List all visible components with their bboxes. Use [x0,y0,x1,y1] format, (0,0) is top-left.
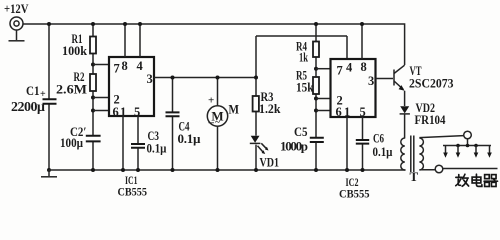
wire to IC1 pin 6 [93,110,110,112]
svg-text:1: 1 [344,105,350,119]
wire IC1 pin 4 to rail [139,24,141,57]
svg-text:6: 6 [336,105,342,119]
svg-text:1k: 1k [299,50,309,65]
svg-text:1000p: 1000p [280,139,308,154]
capacitor C5 1000p [280,124,324,154]
resistor R5 15k [296,69,319,95]
svg-text:7: 7 [114,62,120,76]
wire IC2 pin 1 to ground [346,117,348,170]
wire C4 branch [172,78,174,171]
svg-text:0.1µ: 0.1µ [178,131,202,146]
svg-text:M: M [229,102,240,117]
wire ground rail [49,169,406,171]
node +12V supply terminal [4,2,29,41]
resistor R3 1.2k [253,90,282,116]
discharger needle 2 [456,146,461,158]
node junction rail-C1 [47,22,51,26]
discharger needle 1 [443,146,448,158]
resistor R1 100k [62,32,96,58]
node output terminal top [464,131,472,139]
svg-text:100µ: 100µ [60,135,83,150]
svg-text:2.6M: 2.6M [56,82,87,97]
wire IC1 pin 3 output rail [154,77,256,79]
diode VD1 LED [250,136,279,170]
capacitor C4 0.1u [166,112,202,146]
svg-text:C5: C5 [294,124,308,139]
svg-text:1.2k: 1.2k [259,101,281,116]
node junction chain IC2 pin6 [314,109,318,113]
svg-text:3: 3 [368,74,374,88]
op-amp IC1 CB555 box [109,57,154,199]
capacitor C1 2200u [11,83,57,115]
wire C1 branch [48,24,50,170]
capacitor C6 0.1u [356,132,393,160]
wire IC2 pin 3 to VT base [376,78,394,80]
node junction chain pin6 [91,109,95,113]
svg-text:6: 6 [113,105,119,119]
motor M [207,95,239,129]
capacitor C3 0.1u [131,129,167,156]
ground [41,168,57,177]
node 放电器 label [456,174,498,186]
svg-text:+12V: +12V [4,2,29,16]
diode VD2 FR104 [400,100,447,139]
node junction R4-R5 pin7 [314,67,318,71]
svg-text:8: 8 [361,60,367,74]
resistor R4 1k [296,40,319,65]
wire to IC1 pin 7 [93,64,110,66]
discharger needle 3 [474,146,479,158]
svg-text:8: 8 [122,59,128,73]
svg-text:2200µ: 2200µ [11,100,45,115]
wire secondary bottom to terminal [419,169,435,171]
svg-text:CB555: CB555 [118,185,148,199]
node junction rail-R1 [91,22,95,26]
svg-text:VD1: VD1 [260,155,280,170]
svg-text:3: 3 [147,72,153,86]
svg-text:15k: 15k [296,80,314,95]
wire IC2 pin 8 to rail [361,24,363,59]
wire IC1 pin 1 to ground [122,116,124,170]
wire IC1 pin 8 to rail [124,24,126,57]
node junction chain pin2 [91,96,95,100]
wire +12V top rail [23,24,405,65]
node junction ground-C2' [91,168,95,172]
svg-text:4: 4 [137,59,144,73]
svg-text:0.1µ: 0.1µ [147,141,167,156]
svg-text:C1: C1 [26,83,40,98]
wire R3/VD1 branch and gate wire to IC2 pin4 [255,36,257,170]
wire IC2 pin 5 to C6 [362,117,364,170]
wire secondary top to output terminal [419,136,463,138]
wire IC1 pin 5 to C3 [137,116,139,170]
transistor VT 2SC2073 [394,63,454,106]
discharger needle 4 [487,146,492,158]
svg-text:0.1µ: 0.1µ [373,144,393,159]
wire to IC2 pin 2 [316,98,332,100]
wire discharger plate [443,168,498,170]
svg-text:–: – [208,117,215,129]
wire to IC1 pin 2 [93,97,110,99]
wire to IC2 pin 6 [316,110,332,112]
svg-text:7: 7 [337,64,343,78]
svg-text:+: + [208,95,214,107]
svg-text:4: 4 [346,61,353,75]
wire to IC2 pin 7 [316,68,332,70]
svg-text:5: 5 [134,105,140,119]
svg-text:2SC2073: 2SC2073 [409,77,454,91]
wire R1/R2 chain [92,24,94,170]
wire terminal to needle bus [467,139,469,146]
node junction R1-R2 pin7 [91,63,95,67]
svg-text:CB555: CB555 [339,187,370,201]
wire needle bus [443,145,491,147]
svg-text:~: ~ [215,117,220,127]
svg-text:T: T [410,169,419,184]
transformer T [401,136,424,185]
resistor R2 2.6M [56,70,96,97]
node output terminal bottom [435,165,443,173]
node junction chain IC2 pin2 [314,97,318,101]
wire motor branch [217,78,219,171]
svg-text:5: 5 [360,105,366,119]
capacitor C2' 100u [60,124,101,150]
svg-text:100k: 100k [62,43,88,58]
wire R4/R5 chain [315,24,317,170]
svg-text:FR104: FR104 [415,113,447,127]
op-amp IC2 CB555 box [331,59,376,201]
